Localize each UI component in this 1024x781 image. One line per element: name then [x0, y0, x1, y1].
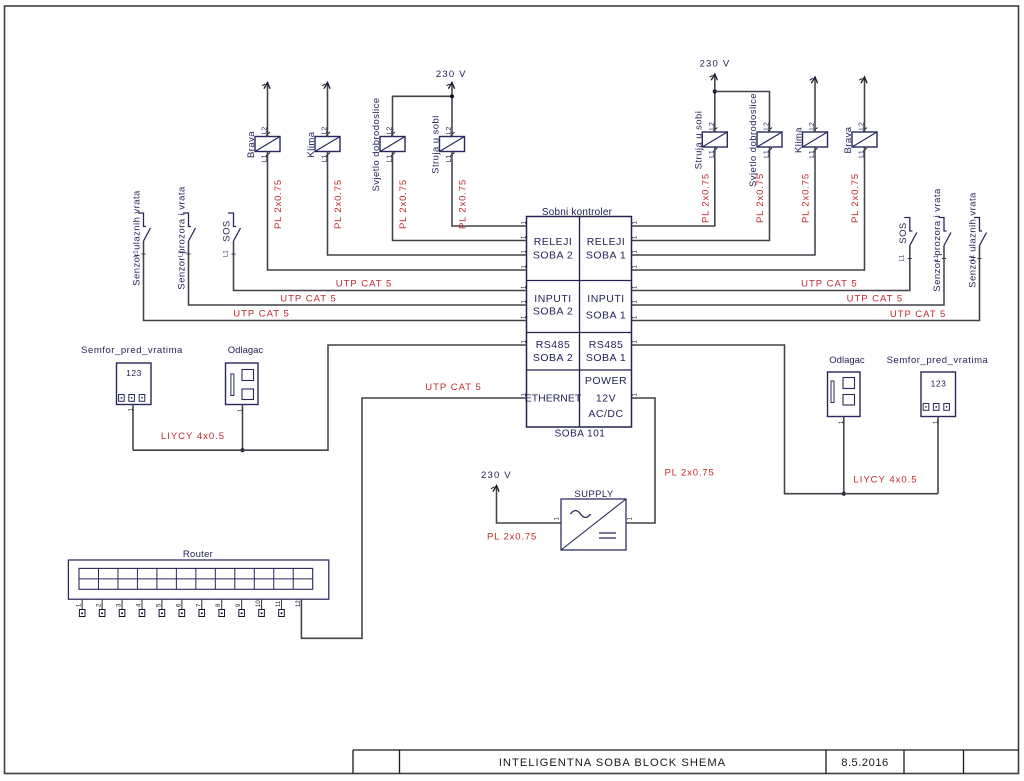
- device A4 Semfor_pred_vratima right box: [921, 372, 956, 417]
- title block divider 1: [352, 750, 354, 774]
- pin L1 of S4: [900, 254, 912, 261]
- svg-text:Brava: Brava: [843, 126, 854, 153]
- svg-text:PL 2x0.75: PL 2x0.75: [487, 532, 537, 543]
- node 230V left junction: [450, 94, 454, 98]
- pin L1 of S5: [934, 254, 946, 261]
- svg-text:Semfor_pred_vratima: Semfor_pred_vratima: [81, 345, 183, 356]
- title block divider 5: [963, 750, 965, 774]
- title block divider 2: [399, 750, 401, 774]
- 230V feed arrow above K8: [861, 77, 867, 83]
- svg-text:INPUTI: INPUTI: [587, 293, 624, 305]
- wire S6 to controller: [632, 246, 980, 321]
- pin L2 of K1: [262, 127, 271, 136]
- title block divider 4: [903, 750, 905, 774]
- router port 7 terminal: [196, 599, 204, 616]
- router port 8 terminal: [216, 599, 224, 616]
- relay K6 Svjetlo dobrodoslice coil: [757, 132, 782, 147]
- svg-text:POWER: POWER: [585, 375, 627, 387]
- svg-text:Senzor prozora i vrata: Senzor prozora i vrata: [932, 188, 943, 292]
- controller row divider 2: [527, 332, 632, 334]
- router port 2 terminal: [97, 599, 105, 616]
- svg-text:Senzor ulaznih vrata: Senzor ulaznih vrata: [132, 190, 143, 286]
- wire A3 to LIYCY bus right: [843, 417, 845, 494]
- svg-text:SOBA 2: SOBA 2: [533, 306, 573, 318]
- router port 11 terminal: [276, 599, 284, 616]
- switch S3 Senzor ulaznih vrata: [138, 213, 151, 241]
- squares of A2: [242, 370, 254, 400]
- svg-text:Svjetlo dobrodoslice: Svjetlo dobrodoslice: [371, 97, 382, 191]
- svg-text:PL 2x0.75: PL 2x0.75: [850, 173, 861, 223]
- svg-text:Klima: Klima: [306, 131, 317, 157]
- relay K3 Svjetlo dobrodoslice coil: [380, 137, 405, 152]
- switch S4 SOS: [904, 218, 917, 246]
- label RS485 SOBA 1: [586, 339, 626, 364]
- wire K3 Svjetlo to 230V node: [393, 96, 453, 136]
- title block top line: [353, 749, 1019, 751]
- indicator squares of A4: [923, 404, 949, 411]
- svg-text:Odlagac: Odlagac: [228, 345, 264, 356]
- controller column divider: [579, 217, 581, 428]
- svg-text:SOBA 1: SOBA 1: [586, 250, 626, 262]
- relay K8 Brava coil: [852, 132, 877, 147]
- svg-text:ETHERNET: ETHERNET: [525, 393, 582, 405]
- wire K8 Brava to 230V arrow: [864, 77, 866, 132]
- svg-text:L1: L1: [900, 254, 906, 261]
- svg-text:Odlagac: Odlagac: [829, 355, 865, 366]
- svg-text:UTP CAT 5: UTP CAT 5: [336, 279, 393, 290]
- pin L1 of K7: [809, 148, 818, 158]
- svg-text:Semfor_pred_vratima: Semfor_pred_vratima: [887, 355, 989, 366]
- switch S5 Senzor prozora i vrata: [939, 218, 952, 246]
- wire S2 to controller: [189, 241, 527, 305]
- svg-text:INTELIGENTNA SOBA BLOCK SHEMA: INTELIGENTNA SOBA BLOCK SHEMA: [499, 757, 726, 769]
- svg-text:INPUTI: INPUTI: [534, 293, 571, 305]
- label INPUTI SOBA 2: [533, 293, 573, 318]
- svg-text:230 V: 230 V: [481, 470, 512, 481]
- svg-text:L1: L1: [133, 250, 139, 257]
- relay K2 Klima coil: [315, 137, 340, 152]
- wire A4 to LIYCY bus right: [937, 417, 939, 494]
- label RS485 SOBA 2: [533, 339, 573, 364]
- wire K4 L1 to controller: [452, 152, 527, 227]
- pin L1 of K4: [446, 153, 455, 163]
- pin L1 of K6: [764, 148, 773, 158]
- router port 6 terminal: [176, 599, 184, 616]
- svg-text:11: 11: [276, 600, 282, 607]
- wire G1 output to POWER 12V pin: [626, 398, 655, 523]
- svg-text:RELEJI: RELEJI: [534, 236, 573, 248]
- node LIYCY right junction: [842, 492, 846, 496]
- svg-text:SOBA 1: SOBA 1: [586, 310, 626, 322]
- pin L2 of K5: [709, 122, 718, 131]
- svg-text:UTP CAT 5: UTP CAT 5: [425, 382, 482, 393]
- wire K5 Struja u sobi to 230V arrow right: [714, 74, 716, 132]
- pin L2 of K8: [859, 122, 868, 131]
- wire K6 Svjetlo to 230V node right: [715, 92, 770, 133]
- svg-text:Brava: Brava: [246, 131, 257, 158]
- router port 5 terminal: [156, 599, 164, 616]
- svg-text:123: 123: [931, 379, 947, 389]
- svg-text:UTP CAT 5: UTP CAT 5: [280, 294, 337, 305]
- svg-text:12V: 12V: [596, 393, 616, 405]
- svg-text:230 V: 230 V: [700, 59, 731, 70]
- pin L1 of K5: [709, 148, 718, 158]
- router port 3 terminal: [117, 599, 125, 616]
- svg-text:Struja u sobi: Struja u sobi: [431, 115, 442, 174]
- svg-text:RS485: RS485: [589, 339, 624, 351]
- device A1 Semfor_pred_vratima left box: [117, 363, 152, 405]
- svg-text:8.5.2016: 8.5.2016: [841, 757, 889, 769]
- svg-text:L1: L1: [934, 254, 940, 261]
- svg-text:Router: Router: [183, 549, 213, 560]
- svg-text:UTP CAT 5: UTP CAT 5: [847, 294, 904, 305]
- pin L1 of S3: [133, 250, 145, 257]
- wire A2 to LIYCY bus: [242, 405, 244, 451]
- wire K5 L1 to controller: [632, 147, 715, 226]
- svg-text:SOS: SOS: [898, 222, 909, 243]
- power supply G1 box: [561, 499, 626, 550]
- svg-text:RS485: RS485: [536, 339, 571, 351]
- svg-text:LIYCY 4x0.5: LIYCY 4x0.5: [161, 431, 225, 442]
- svg-text:SOBA 101: SOBA 101: [555, 429, 606, 440]
- controller U1 Sobni kontroler box: [527, 217, 632, 428]
- switch S2 Senzor prozora i vrata: [183, 213, 196, 241]
- svg-text:Senzor ulaznih vrata: Senzor ulaznih vrata: [968, 192, 979, 288]
- switch S1 SOS: [228, 213, 241, 241]
- router port grid: [79, 568, 313, 589]
- svg-text:PL 2x0.75: PL 2x0.75: [333, 179, 344, 229]
- svg-text:SOBA 1: SOBA 1: [586, 352, 626, 364]
- wire K1 L1 to controller: [268, 152, 527, 271]
- svg-text:230 V: 230 V: [436, 69, 467, 80]
- pin L2 of K3: [387, 127, 396, 136]
- svg-text:UTP CAT 5: UTP CAT 5: [890, 309, 947, 320]
- wire K2 L1 to controller: [328, 152, 527, 256]
- svg-text:PL 2x0.75: PL 2x0.75: [755, 173, 766, 223]
- relay K1 Brava coil: [255, 137, 280, 152]
- svg-text:PL 2x0.75: PL 2x0.75: [398, 179, 409, 229]
- slot of A2: [231, 374, 234, 396]
- svg-text:UTP CAT 5: UTP CAT 5: [233, 309, 290, 320]
- svg-text:10: 10: [256, 600, 262, 607]
- node 230V right junction: [713, 89, 717, 93]
- pin L2 of K2: [322, 127, 331, 136]
- router X1 box: [68, 560, 328, 599]
- pin L1 of K8: [859, 148, 868, 158]
- pin L1 of S6: [969, 254, 981, 261]
- svg-text:Senzor prozora i vrata: Senzor prozora i vrata: [177, 186, 188, 290]
- label RELEJI SOBA 2: [533, 236, 573, 262]
- pin L1 of S2: [178, 250, 190, 257]
- router port 9 terminal: [236, 599, 244, 616]
- svg-text:Svjetlo dobrodoslice: Svjetlo dobrodoslice: [748, 93, 759, 187]
- svg-text:PL 2x0.75: PL 2x0.75: [801, 173, 812, 223]
- svg-text:PL 2x0.75: PL 2x0.75: [700, 173, 711, 223]
- title block divider 3: [825, 750, 827, 774]
- svg-text:SOBA 2: SOBA 2: [533, 352, 573, 364]
- svg-text:AC/DC: AC/DC: [588, 408, 623, 420]
- wire K6 L1 to controller: [632, 147, 770, 241]
- 230V feed arrow above K2: [324, 83, 330, 89]
- pin L1 of K3: [387, 153, 396, 163]
- wire A1 to LIYCY bus: [132, 405, 134, 451]
- svg-text:PL 2x0.75: PL 2x0.75: [665, 468, 715, 479]
- svg-text:UTP CAT 5: UTP CAT 5: [801, 279, 858, 290]
- label POWER 12V AC/DC: [585, 375, 627, 420]
- pin L1 of S1: [223, 250, 235, 257]
- pin L2 of K4: [446, 127, 455, 136]
- indicator squares of A1: [119, 395, 145, 402]
- wire S3 to controller: [144, 241, 527, 321]
- pin L1 of K1: [262, 153, 271, 163]
- svg-text:L1: L1: [969, 254, 975, 261]
- 230V feed arrow at supply: [493, 486, 499, 492]
- 230V feed arrow right: [711, 74, 717, 80]
- wire K7 Klima to 230V arrow: [814, 77, 816, 132]
- 230V feed arrow above K1: [264, 83, 270, 89]
- slot of A3: [831, 381, 834, 403]
- wire K1 Brava to 230V arrow: [267, 83, 269, 137]
- wire 230V feed to G1: [497, 487, 562, 523]
- svg-text:RELEJI: RELEJI: [587, 236, 626, 248]
- router port 1 terminal: [77, 599, 85, 616]
- svg-text:Struja u sobi: Struja u sobi: [693, 111, 704, 170]
- svg-text:L1: L1: [178, 250, 184, 257]
- wire K2 Klima to 230V arrow: [327, 83, 329, 137]
- router port 10 terminal: [256, 599, 264, 616]
- svg-text:PL 2x0.75: PL 2x0.75: [458, 179, 469, 229]
- relay K5 Struja u sobi coil: [702, 132, 727, 147]
- svg-text:Sobni kontroler: Sobni kontroler: [542, 207, 613, 218]
- wire LIYCY bus left to RS485 SOBA 2: [133, 345, 527, 450]
- wire K8 L1 to controller: [632, 147, 865, 270]
- wire S4 SOS to controller: [632, 246, 910, 291]
- pin L1 of K2: [322, 153, 331, 163]
- label INPUTI SOBA 1: [586, 293, 626, 322]
- wire K3 L1 to controller: [393, 152, 527, 241]
- node LIYCY left junction: [240, 448, 244, 452]
- router port 4 terminal: [136, 599, 144, 616]
- svg-text:SOS: SOS: [222, 220, 233, 241]
- wire K7 L1 to controller: [632, 147, 816, 255]
- pin L2 of K6: [764, 122, 773, 131]
- svg-text:Klima: Klima: [794, 127, 805, 153]
- squares of A3: [843, 378, 855, 406]
- controller row divider 1: [527, 280, 632, 282]
- svg-text:PL 2x0.75: PL 2x0.75: [273, 179, 284, 229]
- relay K4 Struja u sobi coil: [440, 137, 465, 152]
- svg-text:L1: L1: [223, 250, 229, 257]
- 230V feed arrow left: [448, 83, 454, 89]
- wire router port 12 to ETHERNET: [301, 398, 526, 638]
- device A2 Odlagac left box: [226, 363, 259, 405]
- device A3 Odlagac right box: [828, 372, 861, 417]
- wire S5 to controller: [632, 246, 945, 306]
- svg-text:SUPPLY: SUPPLY: [574, 489, 613, 500]
- svg-text:123: 123: [126, 368, 142, 378]
- label RELEJI SOBA 1: [586, 236, 626, 262]
- wire LIYCY bus right to RS485 SOBA 1: [632, 345, 939, 494]
- svg-text:SOBA 2: SOBA 2: [533, 250, 573, 262]
- wire K4 Struja u sobi to 230V arrow: [451, 83, 453, 137]
- svg-text:LIYCY 4x0.5: LIYCY 4x0.5: [853, 475, 917, 486]
- relay K7 Klima coil: [803, 132, 828, 147]
- controller row divider 3: [527, 369, 632, 371]
- wire S1 SOS to controller: [234, 241, 527, 291]
- pin L2 of K7: [809, 122, 818, 131]
- switch S6 Senzor ulaznih vrata: [974, 218, 987, 246]
- 230V feed arrow above K7: [811, 77, 817, 83]
